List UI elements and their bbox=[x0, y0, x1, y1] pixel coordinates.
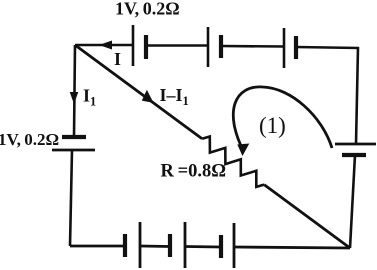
wire left upper segment bbox=[74, 45, 75, 137]
wire bottom-left segment bbox=[70, 245, 125, 248]
resistor R zigzag bbox=[202, 137, 264, 187]
cell E5 short plate (top) bbox=[62, 135, 86, 139]
cell E2 short plate bbox=[219, 35, 223, 58]
cell E3 long plate bbox=[283, 28, 286, 68]
wire right lower segment bbox=[350, 155, 355, 248]
cell E7 short plate bbox=[168, 234, 172, 257]
cell E3 short plate bbox=[294, 36, 298, 59]
wire between E6 and E7 bbox=[140, 245, 170, 248]
svg-text:I: I bbox=[114, 49, 121, 69]
svg-text:1V, 0.2Ω: 1V, 0.2Ω bbox=[115, 0, 180, 19]
label: 1V,0.2Ω (left cell) bbox=[0, 130, 59, 149]
arrowhead current I-I1 on diagonal bbox=[142, 90, 154, 103]
wire right upper segment bbox=[356, 47, 358, 144]
arrowhead current I1 on left wire (pointing down) bbox=[70, 92, 79, 104]
label R =0.8Ω bbox=[161, 162, 227, 182]
cell E4 short plate (bottom) bbox=[342, 153, 366, 157]
cell E6 short plate bbox=[123, 234, 127, 257]
label: 1V,0.2Ω (top battery bank) bbox=[115, 0, 180, 19]
cell E2 long plate bbox=[207, 27, 210, 67]
cell E1 long plate bbox=[132, 25, 135, 66]
wire top-right segment bbox=[296, 47, 359, 48]
label I bbox=[114, 49, 121, 69]
wire between E7 and E8 bbox=[185, 245, 221, 248]
svg-text:1V, 0.2Ω: 1V, 0.2Ω bbox=[0, 130, 59, 149]
cell E6 long plate bbox=[139, 222, 142, 268]
wire left lower segment bbox=[70, 150, 72, 246]
loop arc (1) bbox=[233, 87, 332, 150]
svg-text:I1: I1 bbox=[83, 86, 96, 109]
label I-I1 bbox=[160, 85, 189, 108]
svg-text:I–I1: I–I1 bbox=[160, 85, 189, 108]
wire between E1 and E2 bbox=[146, 44, 208, 47]
label (1) bbox=[259, 113, 286, 138]
wire between E2 and E3 bbox=[221, 45, 284, 48]
wire top-left segment bbox=[75, 44, 133, 47]
arrowhead of loop arc bbox=[237, 144, 249, 157]
wire diagonal upper segment bbox=[75, 45, 202, 139]
cell E8 short plate bbox=[219, 235, 223, 258]
cell E1 short plate bbox=[144, 35, 148, 59]
arrowhead current I on top wire (pointing left) bbox=[99, 41, 112, 50]
cell E4 long plate (top) bbox=[335, 143, 376, 146]
svg-text:R =0.8Ω: R =0.8Ω bbox=[161, 162, 227, 182]
label I1 bbox=[83, 86, 96, 109]
wire bottom-right segment bbox=[234, 247, 350, 248]
cell E5 long plate (bottom) bbox=[52, 149, 95, 152]
svg-text:(1): (1) bbox=[259, 113, 286, 138]
cell E8 long plate bbox=[233, 223, 236, 268]
cell E7 long plate bbox=[184, 222, 187, 268]
wire diagonal lower segment bbox=[264, 185, 350, 248]
